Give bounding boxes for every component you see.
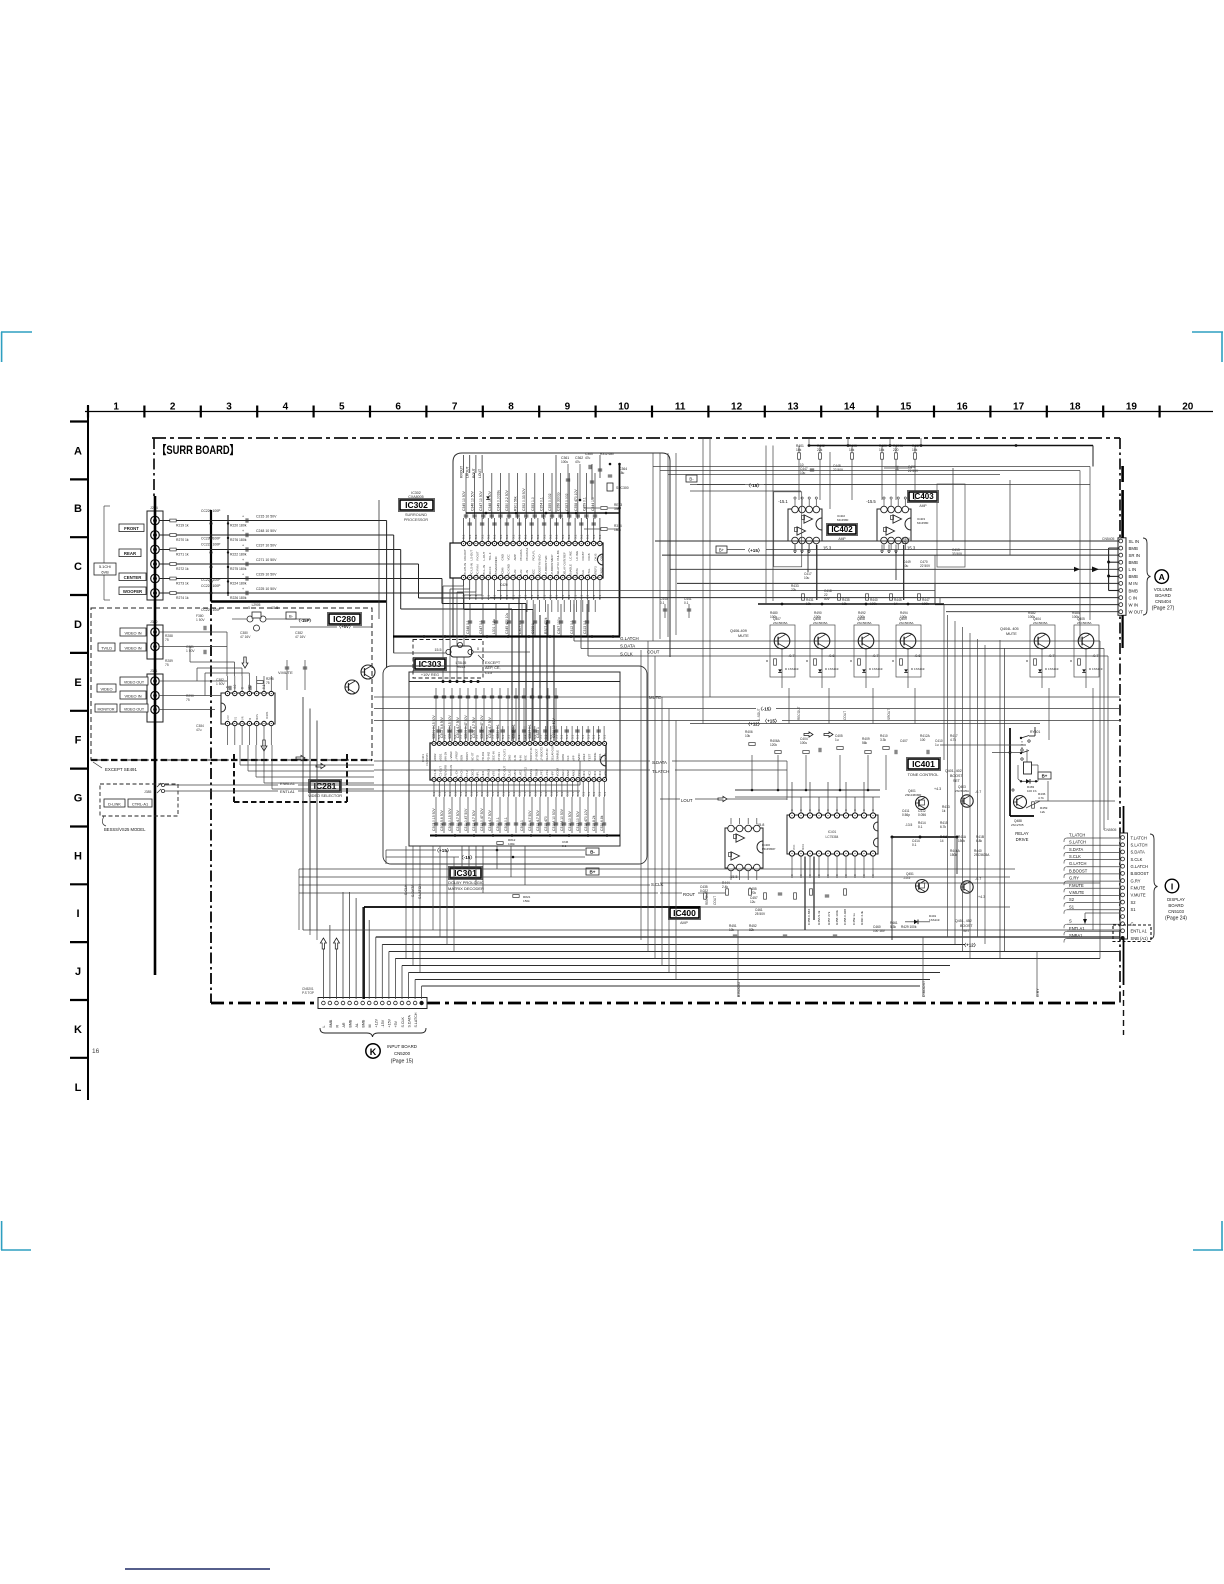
IC401 package body xyxy=(787,815,878,854)
svg-text:BOOST-IN: BOOST-IN xyxy=(529,748,533,761)
IC302 lower component band xyxy=(469,604,471,636)
wire bottom bus 930 xyxy=(690,929,1120,931)
svg-text:5.1: 5.1 xyxy=(442,734,446,739)
svg-text:OSC2: OSC2 xyxy=(604,753,608,761)
svg-text:G.RY: G.RY xyxy=(1036,988,1040,997)
IC400 triangles xyxy=(736,834,745,842)
svg-text:6VB: 6VB xyxy=(101,570,109,575)
connector J294 (speaker line inputs) xyxy=(147,511,163,600)
svg-text:LP-BOOT: LP-BOOT xyxy=(534,748,538,761)
svg-text:M: M xyxy=(248,718,252,720)
svg-text:S.DATA: S.DATA xyxy=(1131,850,1145,855)
svg-text:5.1: 5.1 xyxy=(587,792,591,796)
svg-text:C307 0.1: C307 0.1 xyxy=(518,620,522,634)
svg-text:CT-IN1: CT-IN1 xyxy=(497,752,501,761)
svg-text:5.1: 5.1 xyxy=(592,594,596,599)
svg-text:AEP, CE,: AEP, CE, xyxy=(485,666,501,670)
svg-text:C306 4.7 50V: C306 4.7 50V xyxy=(472,717,476,738)
svg-text:R275 180k: R275 180k xyxy=(230,567,247,571)
svg-text:CC225 100P: CC225 100P xyxy=(201,608,221,612)
svg-text:5.1: 5.1 xyxy=(524,594,528,599)
svg-text:2.4k: 2.4k xyxy=(722,885,728,889)
svg-text:5.1: 5.1 xyxy=(486,792,490,796)
svg-text:NC-ST: NC-ST xyxy=(470,752,474,761)
svg-text:B-: B- xyxy=(590,849,595,854)
svg-text:C305 0.47 50V: C305 0.47 50V xyxy=(464,715,468,738)
serial wires to IC401 xyxy=(374,760,650,762)
bold verticals below IC401 xyxy=(804,857,806,931)
svg-text:5.1: 5.1 xyxy=(464,734,468,739)
svg-text:5.1: 5.1 xyxy=(603,792,607,796)
IC302 bottom stubs xyxy=(463,580,465,601)
svg-text:5.1: 5.1 xyxy=(524,534,528,539)
IC301 outermost box xyxy=(383,666,647,864)
svg-text:C359 0.1: C359 0.1 xyxy=(582,497,586,511)
svg-text:PC-OUT: PC-OUT xyxy=(502,765,506,776)
transistor Q408 mute stage xyxy=(854,625,879,677)
svg-text:PHL.BK: PHL.BK xyxy=(556,550,560,560)
svg-text:BMB: BMB xyxy=(1129,560,1138,565)
svg-text:B+: B+ xyxy=(1042,773,1048,778)
BESSS/VS25 MODEL note xyxy=(102,816,106,826)
svg-text:5.1: 5.1 xyxy=(448,792,452,796)
wires from IC302 bottom-left to lower circuits xyxy=(463,580,465,587)
bold wire below display connector xyxy=(1123,939,1125,985)
svg-text:L: L xyxy=(75,1082,82,1094)
svg-text:PC-LS-IN: PC-LS-IN xyxy=(469,563,473,575)
svg-text:W IN: W IN xyxy=(1129,602,1139,607)
svg-text:5.1: 5.1 xyxy=(566,792,570,796)
svg-text:+: + xyxy=(242,529,244,533)
svg-text:B+: B+ xyxy=(589,869,595,874)
capacitor C215 10 50V xyxy=(245,518,247,522)
svg-text:VR: VR xyxy=(241,716,245,720)
IC301 bottom stubs xyxy=(433,782,435,798)
resistor glyphs below IC401 xyxy=(704,893,707,899)
svg-text:6.8k: 6.8k xyxy=(976,839,982,843)
svg-text:SROUT: SROUT xyxy=(887,709,891,720)
wires from right mute pair down xyxy=(1048,688,1050,740)
capacitor C225 10 50V xyxy=(245,591,247,595)
svg-text:100k: 100k xyxy=(1072,615,1079,619)
junction bus above IC401 xyxy=(735,789,880,791)
svg-text:0.56p: 0.56p xyxy=(902,813,910,817)
svg-text:MID1: MID1 xyxy=(802,843,805,850)
svg-text:D 1SS119: D 1SS119 xyxy=(825,667,839,671)
svg-text:75: 75 xyxy=(266,681,270,685)
mute control wire xyxy=(374,696,1120,698)
svg-text:T.LATCH: T.LATCH xyxy=(1069,833,1085,838)
svg-text:2SC5635A: 2SC5635A xyxy=(773,621,788,625)
svg-text:CC221 100P: CC221 100P xyxy=(201,537,221,541)
svg-text:-0.7: -0.7 xyxy=(788,654,795,658)
svg-text:0.056: 0.056 xyxy=(918,813,926,817)
svg-text:BOARD: BOARD xyxy=(1155,593,1171,598)
svg-text:EXCEPT: EXCEPT xyxy=(485,661,501,665)
svg-text:SET: SET xyxy=(953,779,961,783)
svg-text:S2: S2 xyxy=(1069,897,1075,902)
svg-text:12: 12 xyxy=(731,402,743,413)
svg-text:PC-L-IN: PC-L-IN xyxy=(482,565,486,575)
label REAR xyxy=(119,549,141,557)
svg-text:5.1: 5.1 xyxy=(550,792,554,796)
svg-text:C313 0.1: C313 0.1 xyxy=(583,620,587,634)
label MONITOR xyxy=(95,704,117,712)
svg-text:1k: 1k xyxy=(942,809,946,813)
svg-text:OSC: OSC xyxy=(600,554,604,560)
svg-text:+: + xyxy=(242,544,244,548)
svg-text:G.RY: G.RY xyxy=(1069,876,1079,881)
wire speaker channel 5 xyxy=(159,578,251,580)
svg-text:VDD2: VDD2 xyxy=(433,753,437,761)
svg-text:C345 470 10u: C345 470 10u xyxy=(505,613,509,634)
svg-text:1 50V: 1 50V xyxy=(216,682,225,686)
svg-text:BMB: BMB xyxy=(348,1019,352,1027)
svg-text:CC220 100P: CC220 100P xyxy=(201,509,221,513)
svg-text:A: A xyxy=(1159,572,1165,582)
svg-text:PC-R-IN: PC-R-IN xyxy=(476,565,480,576)
svg-text:19: 19 xyxy=(1126,402,1138,413)
svg-text:18u: 18u xyxy=(619,471,625,475)
svg-text:TCL.F: TCL.F xyxy=(488,552,492,560)
grid header line xyxy=(85,411,1213,413)
svg-text:5.1: 5.1 xyxy=(464,792,468,796)
label VIDEO IN (1) xyxy=(120,628,146,636)
svg-text:MC4580P: MC4580P xyxy=(762,847,775,851)
svg-text:CXA8058S: CXA8058S xyxy=(425,753,429,766)
svg-text:5: 5 xyxy=(339,402,345,413)
svg-text:5.1: 5.1 xyxy=(549,534,553,539)
svg-text:5.1: 5.1 xyxy=(602,734,606,739)
grid row ticks and letters A-L xyxy=(70,420,88,422)
svg-text:1 50V: 1 50V xyxy=(186,649,195,653)
svg-text:C311 0.47 50V: C311 0.47 50V xyxy=(464,808,468,831)
svg-text:MODE: MODE xyxy=(593,752,597,761)
svg-text:C1-OUT: C1-OUT xyxy=(438,766,442,777)
svg-text:F.MUTE: F.MUTE xyxy=(1131,886,1146,891)
relay RY401 coil xyxy=(1024,762,1032,774)
svg-text:G.LATCH: G.LATCH xyxy=(1069,861,1086,866)
svg-text:C248 10 50V: C248 10 50V xyxy=(256,529,277,533)
svg-text:2SK2466MR: 2SK2466MR xyxy=(905,793,921,797)
svg-text:4.9: 4.9 xyxy=(233,684,237,689)
svg-text:F.MUTE: F.MUTE xyxy=(1069,883,1084,888)
ground arrow video xyxy=(242,657,248,668)
svg-text:DATA: DATA xyxy=(561,754,565,761)
svg-text:AR: AR xyxy=(342,1022,346,1027)
svg-text:+: + xyxy=(242,573,244,577)
brace for display connector xyxy=(1150,834,1158,939)
svg-text:IC280: IC280 xyxy=(333,614,356,624)
verticals center-right between rows xyxy=(943,604,945,760)
svg-text:VDD1: VDD1 xyxy=(438,753,442,761)
svg-text:5.1: 5.1 xyxy=(561,534,565,539)
svg-text:CLK: CLK xyxy=(581,570,585,576)
video ground bold bus xyxy=(154,496,157,975)
IC281 top pin row xyxy=(225,691,229,695)
svg-text:PD-IN2: PD-IN2 xyxy=(486,751,490,761)
svg-text:15.8: 15.8 xyxy=(757,823,764,827)
svg-text:VIN-1N: VIN-1N xyxy=(444,752,448,761)
svg-text:LP-BOOST2: LP-BOOST2 xyxy=(550,559,554,576)
svg-text:100k: 100k xyxy=(770,615,777,619)
svg-text:B.BOOST: B.BOOST xyxy=(1069,868,1088,873)
wires top right bundle xyxy=(653,466,1090,468)
svg-text:L2905: L2905 xyxy=(252,603,261,607)
extra verticals near relay xyxy=(999,640,1001,959)
diode below Q407 xyxy=(778,669,782,672)
svg-text:5.1: 5.1 xyxy=(470,792,474,796)
svg-text:11: 11 xyxy=(675,402,686,413)
svg-text:5.1: 5.1 xyxy=(570,734,574,739)
svg-text:ENABLE: ENABLE xyxy=(569,564,573,575)
svg-text:C312 0.1: C312 0.1 xyxy=(570,620,574,634)
svg-text:18: 18 xyxy=(1069,402,1081,413)
arrowhead on L IN wire xyxy=(1092,567,1099,573)
svg-text:C237 10 50V: C237 10 50V xyxy=(256,544,277,548)
label CTRL-A1 xyxy=(128,799,152,807)
IC301 top pin row xyxy=(432,742,436,746)
svg-text:100u: 100u xyxy=(561,460,568,464)
svg-text:5.1: 5.1 xyxy=(512,734,516,739)
svg-text:C310 4.7 50V: C310 4.7 50V xyxy=(456,810,460,831)
svg-text:10: 10 xyxy=(618,402,630,413)
label TV/LD xyxy=(98,643,115,651)
svg-text:5.1: 5.1 xyxy=(534,792,538,796)
svg-text:LC75384: LC75384 xyxy=(826,835,839,839)
serial control lines from IC302 xyxy=(573,600,575,641)
wire B.BOOST long vertical right xyxy=(1092,724,1094,931)
svg-text:5.1: 5.1 xyxy=(432,792,436,796)
svg-text:MC4580: MC4580 xyxy=(837,518,849,522)
capacitor C229 10 50V xyxy=(245,576,247,580)
transistor Q406 mute stage xyxy=(810,625,835,677)
svg-text:2SC5635A: 2SC5635A xyxy=(955,789,969,793)
svg-text:5.1: 5.1 xyxy=(544,734,548,739)
svg-text:2SC5635A: 2SC5635A xyxy=(813,621,828,625)
svg-text:CN5505: CN5505 xyxy=(1104,828,1117,832)
svg-text:10u: 10u xyxy=(804,576,810,580)
svg-text:NC2: NC2 xyxy=(588,770,592,776)
svg-text:K: K xyxy=(370,1047,377,1057)
svg-text:NC4: NC4 xyxy=(598,770,602,776)
svg-text:VREF: VREF xyxy=(582,753,586,761)
svg-text:5.1: 5.1 xyxy=(544,792,548,796)
svg-text:D 1SS119: D 1SS119 xyxy=(1045,667,1059,671)
svg-text:100k: 100k xyxy=(858,615,865,619)
wires lower-left region horizontals xyxy=(299,868,1015,870)
svg-text:M: M xyxy=(368,1025,372,1028)
svg-text:AIN3: AIN3 xyxy=(572,770,576,777)
label VIDEO IN (2) xyxy=(120,643,146,651)
wire speaker channel 3 xyxy=(159,549,251,551)
bold L wire to relay base xyxy=(1009,728,1011,816)
svg-text:-15V: -15V xyxy=(381,1019,385,1027)
svg-text:-13.5: -13.5 xyxy=(905,823,912,827)
svg-text:22k: 22k xyxy=(791,588,797,592)
IC302 outer circuit box xyxy=(453,453,670,657)
svg-text:-15.5: -15.5 xyxy=(270,606,278,610)
svg-text:5.1: 5.1 xyxy=(474,734,478,739)
svg-text:S.DATA: S.DATA xyxy=(620,644,635,649)
svg-text:100: 100 xyxy=(920,738,926,742)
svg-text:150k: 150k xyxy=(950,853,957,857)
svg-text:R: R xyxy=(335,1025,339,1028)
IC303 reference label xyxy=(414,658,447,671)
svg-text:COUT: COUT xyxy=(647,650,660,655)
Q451 lower FET xyxy=(916,880,929,893)
IC302/IC303 ground bus xyxy=(393,635,620,637)
svg-text:C225 10 50V: C225 10 50V xyxy=(256,587,277,591)
wire -15P supply vertical near IC302 label xyxy=(378,500,380,619)
IC281 reference label xyxy=(309,780,342,793)
label WOOFER xyxy=(119,587,146,595)
svg-text:R220 180k: R220 180k xyxy=(230,523,247,527)
svg-text:C304 4.7 50V: C304 4.7 50V xyxy=(456,717,460,738)
IC301 lower ground bus xyxy=(430,835,620,837)
feedback loop boxes xyxy=(774,492,802,567)
svg-text:5.1: 5.1 xyxy=(469,734,473,739)
svg-text:PROCESSOR: PROCESSOR xyxy=(404,518,429,522)
ground arrows IC281 xyxy=(261,740,267,751)
svg-text:I: I xyxy=(76,908,79,920)
svg-text:S.CLK: S.CLK xyxy=(1131,857,1143,862)
svg-text:5.1: 5.1 xyxy=(571,792,575,796)
wires J380 to IC281 staircase xyxy=(226,632,228,676)
svg-text:120k: 120k xyxy=(770,743,777,747)
svg-text:VIDEO: VIDEO xyxy=(100,686,112,691)
jog wire on G pin xyxy=(1084,913,1086,924)
svg-text:C317 10 50V: C317 10 50V xyxy=(576,810,580,831)
svg-text:S1: S1 xyxy=(1069,904,1075,909)
svg-text:C348 0.1: C348 0.1 xyxy=(466,620,470,634)
svg-text:22 50V: 22 50V xyxy=(833,468,844,472)
svg-text:S: S xyxy=(1069,919,1072,924)
svg-text:R429 100k: R429 100k xyxy=(901,925,917,929)
svg-text:5.1: 5.1 xyxy=(522,734,526,739)
svg-text:5.1: 5.1 xyxy=(438,792,442,796)
svg-text:C347 10 50V: C347 10 50V xyxy=(479,490,483,511)
IC302 package body xyxy=(450,543,603,578)
svg-text:4.9: 4.9 xyxy=(248,684,252,689)
svg-text:5.1: 5.1 xyxy=(549,734,553,739)
IC301 bottom pin row xyxy=(432,778,436,782)
svg-text:+: + xyxy=(242,587,244,591)
svg-text:SRND-IN: SRND-IN xyxy=(449,765,453,777)
transistor Q404 mute stage xyxy=(1030,625,1055,677)
svg-text:5.1: 5.1 xyxy=(530,594,534,599)
B+ supply entry xyxy=(716,546,727,553)
svg-text:S.DATA: S.DATA xyxy=(407,1014,411,1027)
svg-text:1SS119: 1SS119 xyxy=(929,918,940,922)
svg-text:C314 4.7 50V: C314 4.7 50V xyxy=(488,810,492,831)
svg-text:5.1: 5.1 xyxy=(567,534,571,539)
svg-text:FRONT: FRONT xyxy=(124,526,139,531)
wire speaker channel 6 xyxy=(159,592,251,594)
svg-text:-0.6: -0.6 xyxy=(914,654,921,658)
svg-text:VIDEO IN: VIDEO IN xyxy=(124,693,141,698)
svg-text:5.1: 5.1 xyxy=(262,684,266,689)
svg-text:L.SOUT: L.SOUT xyxy=(757,708,761,720)
svg-text:C350 2.2 50V: C350 2.2 50V xyxy=(505,490,509,511)
svg-text:5.1: 5.1 xyxy=(573,534,577,539)
Q403 transistor xyxy=(961,795,973,807)
ground bus vertical (speaker inputs) xyxy=(210,510,212,602)
svg-text:C346 10 50V: C346 10 50V xyxy=(471,490,475,511)
svg-text:B-: B- xyxy=(689,476,694,481)
svg-text:-5: -5 xyxy=(247,606,250,610)
B- box small xyxy=(286,612,296,619)
svg-text:H: H xyxy=(74,850,82,862)
Q401 tone boost FET xyxy=(916,797,929,810)
svg-text:2SC5635A: 2SC5635A xyxy=(1077,621,1092,625)
svg-text:PD-IN1: PD-IN1 xyxy=(481,751,485,761)
svg-text:1u: 1u xyxy=(935,743,939,747)
capacitor C248 10 50V xyxy=(245,533,247,537)
svg-text:VSS: VSS xyxy=(492,771,496,777)
mute row bias bus xyxy=(758,603,944,605)
SURR BOARD outline right xyxy=(1119,438,1121,1003)
wires from mute row outputs down xyxy=(788,688,790,724)
svg-text:C229 10 50V: C229 10 50V xyxy=(256,573,277,577)
svg-text:BMB: BMB xyxy=(329,1019,333,1027)
svg-text:(Page 15): (Page 15) xyxy=(391,1059,414,1065)
svg-text:5.1: 5.1 xyxy=(496,792,500,796)
svg-text:100 16V: 100 16V xyxy=(873,929,886,933)
svg-text:5.1: 5.1 xyxy=(474,534,478,539)
svg-text:-0.7: -0.7 xyxy=(1092,654,1099,658)
svg-text:Q406-409: Q406-409 xyxy=(730,629,747,633)
ground marks under op-amps xyxy=(794,545,796,552)
svg-text:C407: C407 xyxy=(900,739,908,743)
wires IC280 right exits xyxy=(372,640,574,642)
svg-text:C307 0.47 50V: C307 0.47 50V xyxy=(480,715,484,738)
extra lines top-right cluster xyxy=(555,455,557,513)
speaker wires staircase to IC301 bundle xyxy=(251,520,387,522)
svg-text:5.1: 5.1 xyxy=(487,534,491,539)
svg-text:5.1: 5.1 xyxy=(586,534,590,539)
svg-text:5.1: 5.1 xyxy=(539,792,543,796)
svg-text:5.1: 5.1 xyxy=(592,792,596,796)
label 5.1CH/6VB xyxy=(94,563,116,575)
svg-text:5.1CH/: 5.1CH/ xyxy=(99,564,112,569)
svg-text:150k: 150k xyxy=(523,899,530,903)
svg-text:150k: 150k xyxy=(958,839,965,843)
svg-text:C303 1: C303 1 xyxy=(520,820,524,831)
label D-LINK xyxy=(104,799,125,807)
svg-text:ENBLA1: ENBLA1 xyxy=(280,781,295,786)
svg-text:1 50V: 1 50V xyxy=(196,618,205,622)
svg-text:COUT: COUT xyxy=(713,896,717,905)
svg-text:D 1SS119: D 1SS119 xyxy=(869,667,883,671)
capacitor C237 10 50V xyxy=(245,547,247,551)
svg-text:S.DATA: S.DATA xyxy=(1069,847,1083,852)
Q453 lower transistor xyxy=(961,881,973,893)
svg-text:D-LINK: D-LINK xyxy=(108,801,121,806)
svg-text:C315 470: C315 470 xyxy=(544,816,548,831)
IC301 lower capacitor band xyxy=(435,797,437,833)
svg-text:B-IN: B-IN xyxy=(519,570,523,576)
svg-text:CN5103: CN5103 xyxy=(1168,909,1184,914)
svg-text:G: G xyxy=(74,793,83,805)
svg-text:AMP: AMP xyxy=(680,921,688,925)
svg-text:S.LATCH: S.LATCH xyxy=(1069,840,1086,845)
svg-text:RROUT: RROUT xyxy=(460,466,464,478)
svg-text:IC303: IC303 xyxy=(419,659,442,669)
svg-text:C301 0.15 50V: C301 0.15 50V xyxy=(432,715,436,738)
long horizontal wires lower area xyxy=(376,936,1120,938)
wire speaker channel 4 xyxy=(159,563,251,565)
